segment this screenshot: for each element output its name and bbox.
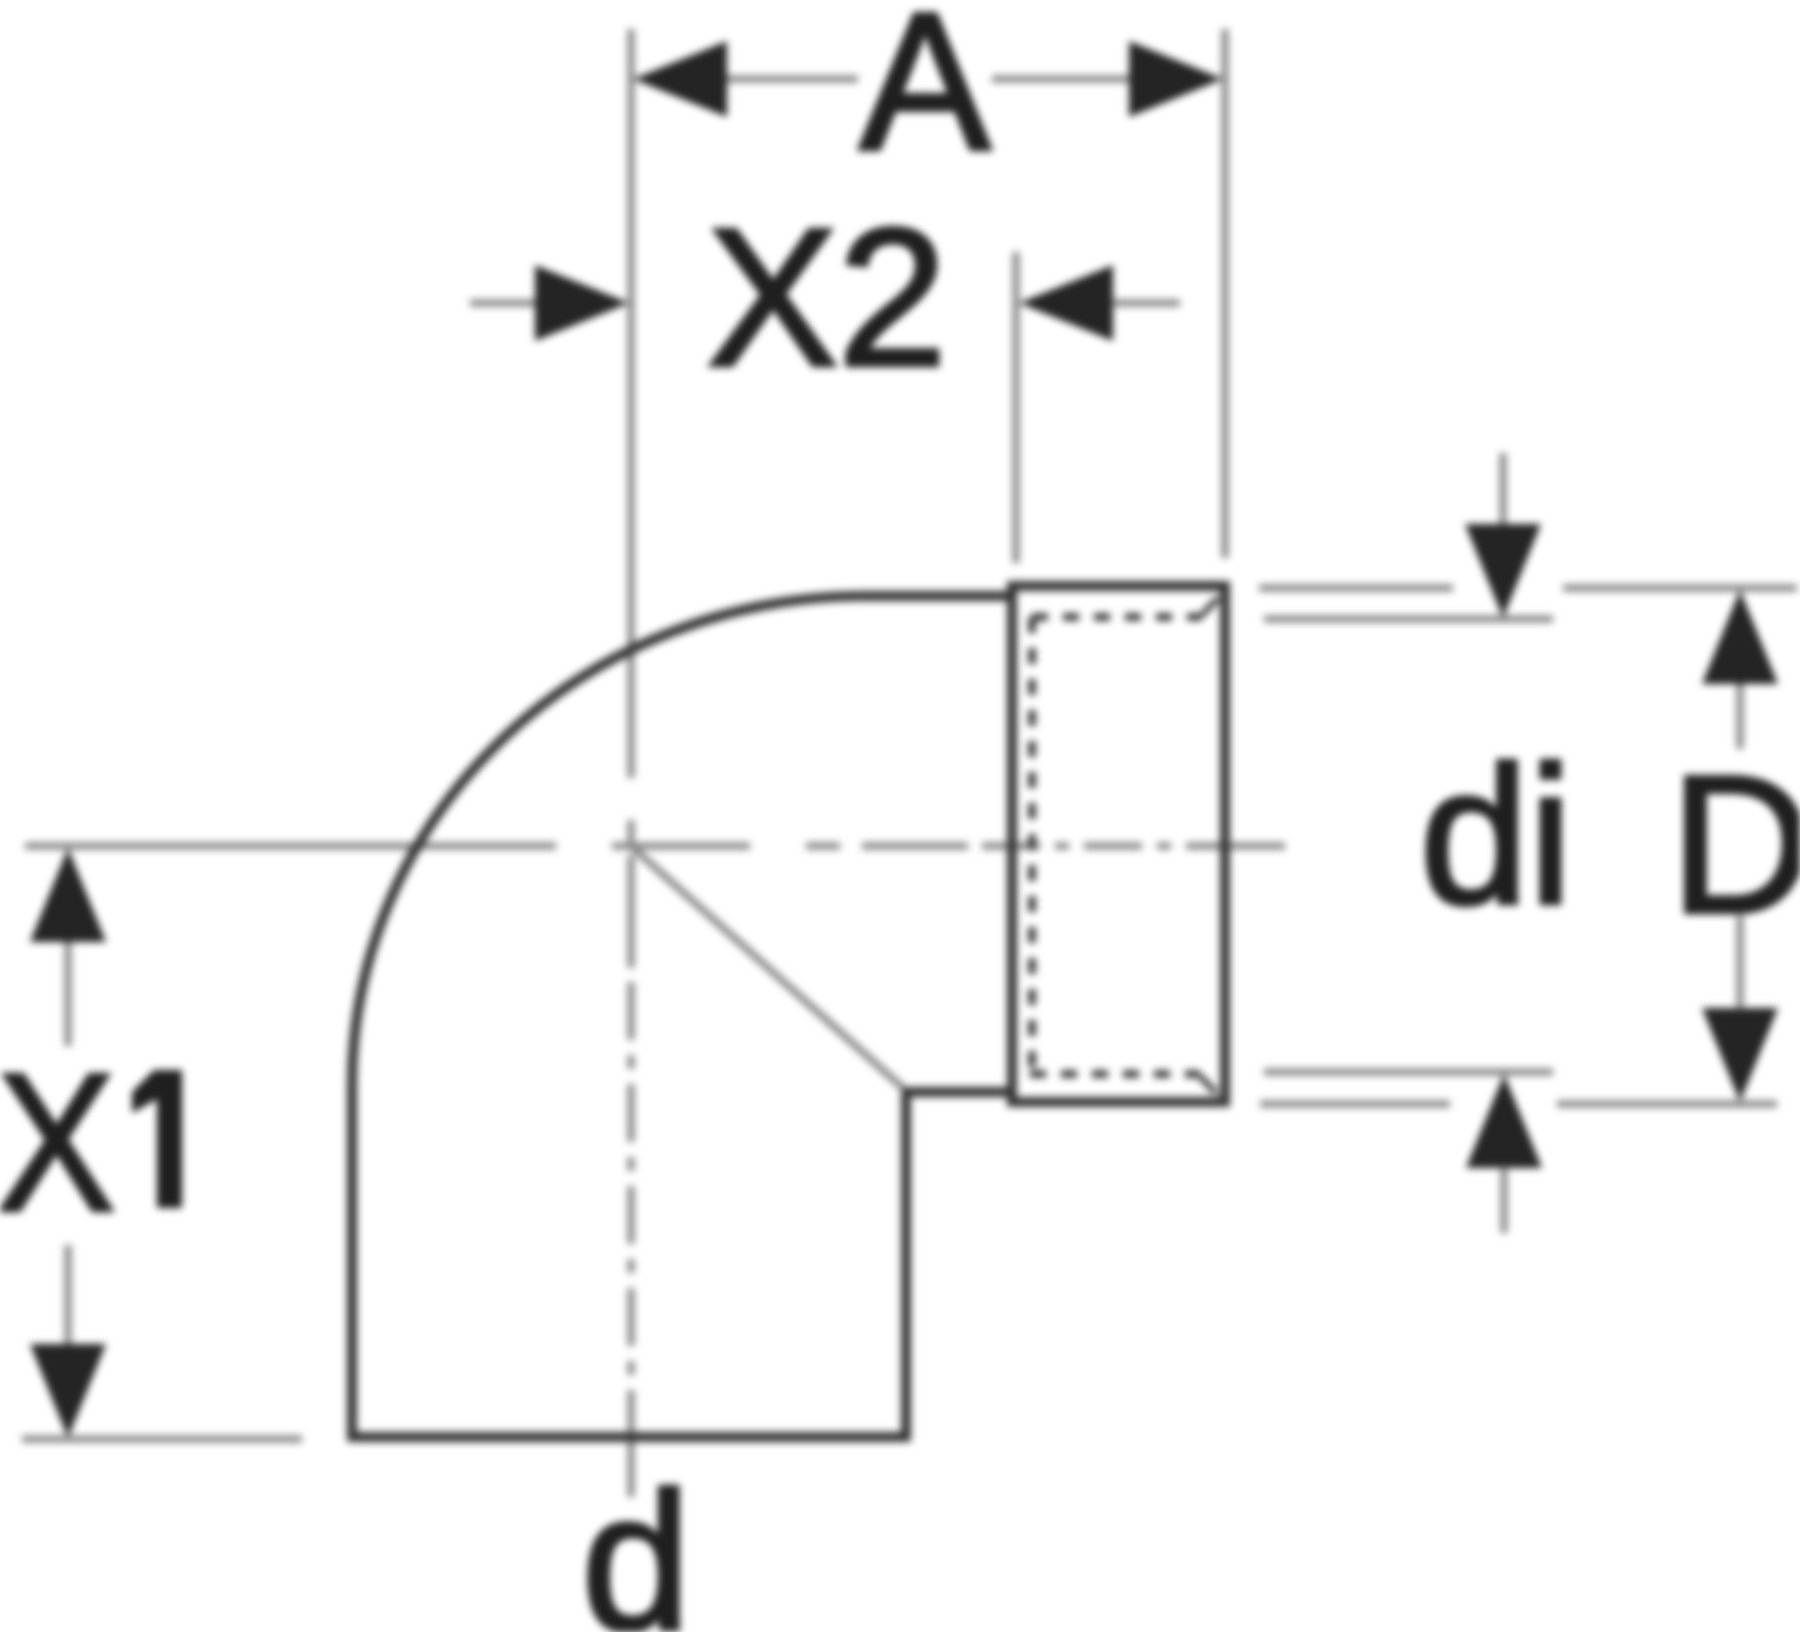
extension line: D top (socket OD) bbox=[1259, 585, 1453, 592]
svg-text:X: X bbox=[0, 1032, 115, 1252]
arrowhead A left bbox=[633, 41, 727, 117]
elbow outer arc bbox=[352, 596, 865, 1085]
arrowhead A right bbox=[1129, 41, 1223, 117]
socket mouth chamfer bottom bbox=[1200, 1076, 1216, 1093]
extension line: A right reference at socket end bbox=[1222, 29, 1229, 558]
socket inner wall dotted left bbox=[1028, 617, 1036, 1074]
dimension X1: vertical line upper segment bbox=[65, 941, 72, 1046]
socket inner wall dotted bottom bbox=[1030, 1070, 1200, 1078]
dimension di: bottom tail bbox=[1501, 1167, 1508, 1233]
svg-text:d: d bbox=[581, 1452, 690, 1632]
dimension D: bottom tail bbox=[1737, 916, 1744, 1009]
elbow tube right edge bbox=[901, 1092, 911, 1441]
dimension di: top tail bbox=[1500, 453, 1507, 525]
svg-text:di: di bbox=[1420, 726, 1573, 945]
socket mouth chamfer top bbox=[1202, 598, 1218, 615]
elbow tube top edge bbox=[863, 591, 1012, 601]
dimension X2: right approach line bbox=[1112, 300, 1180, 307]
extension line: X1 bottom reference (pipe end face) bbox=[22, 1436, 302, 1443]
arrowhead X2 right (points left) bbox=[1019, 265, 1113, 341]
centerline: vertical axis of lower pipe (dash-dot) bbox=[628, 820, 635, 843]
arrowhead X2 left (points right) bbox=[535, 265, 629, 341]
dimension X2: left approach line bbox=[470, 300, 542, 307]
arrowhead X1 top (points up) bbox=[30, 848, 106, 942]
elbow tube left edge bbox=[347, 1083, 357, 1441]
arrowhead di bottom (points up) bbox=[1466, 1074, 1542, 1168]
extension line: X2 right reference at socket root bbox=[1013, 252, 1020, 563]
extension line: di bottom (socket ID) bbox=[1264, 1069, 1553, 1076]
socket outline bbox=[1012, 586, 1225, 1102]
extension line: vertical centerline top (A/X2 left reference) bbox=[628, 29, 635, 778]
extension line: D bottom (socket OD) bbox=[1260, 1101, 1450, 1108]
diagonal miter line bbox=[631, 846, 903, 1088]
dimension D: top tail bbox=[1737, 683, 1744, 749]
svg-text:X2: X2 bbox=[707, 188, 947, 407]
dimension A: line left segment bbox=[722, 76, 858, 83]
dimension X1: vertical line lower segment bbox=[65, 1245, 72, 1347]
arrowhead X1 bottom (points down) bbox=[30, 1344, 106, 1438]
elbow bottom end face bbox=[348, 1432, 910, 1442]
socket inner wall dotted top bbox=[1032, 613, 1202, 621]
step shoulder under socket bbox=[902, 1087, 1012, 1097]
svg-text:D: D bbox=[1670, 735, 1800, 954]
centerline: horizontal axis (solid left part, X1 top reference) bbox=[25, 843, 556, 850]
extension line: di top (socket ID) bbox=[1264, 616, 1553, 623]
centerline: horizontal axis dash-dot through fitting bbox=[612, 843, 750, 850]
arrowhead D bottom (points down) bbox=[1702, 1008, 1778, 1102]
svg-text:A: A bbox=[860, 0, 991, 191]
dimension A: line right segment bbox=[992, 76, 1134, 83]
arrowhead D top (points up) bbox=[1702, 590, 1778, 684]
arrowhead di top (points down) bbox=[1465, 524, 1541, 618]
